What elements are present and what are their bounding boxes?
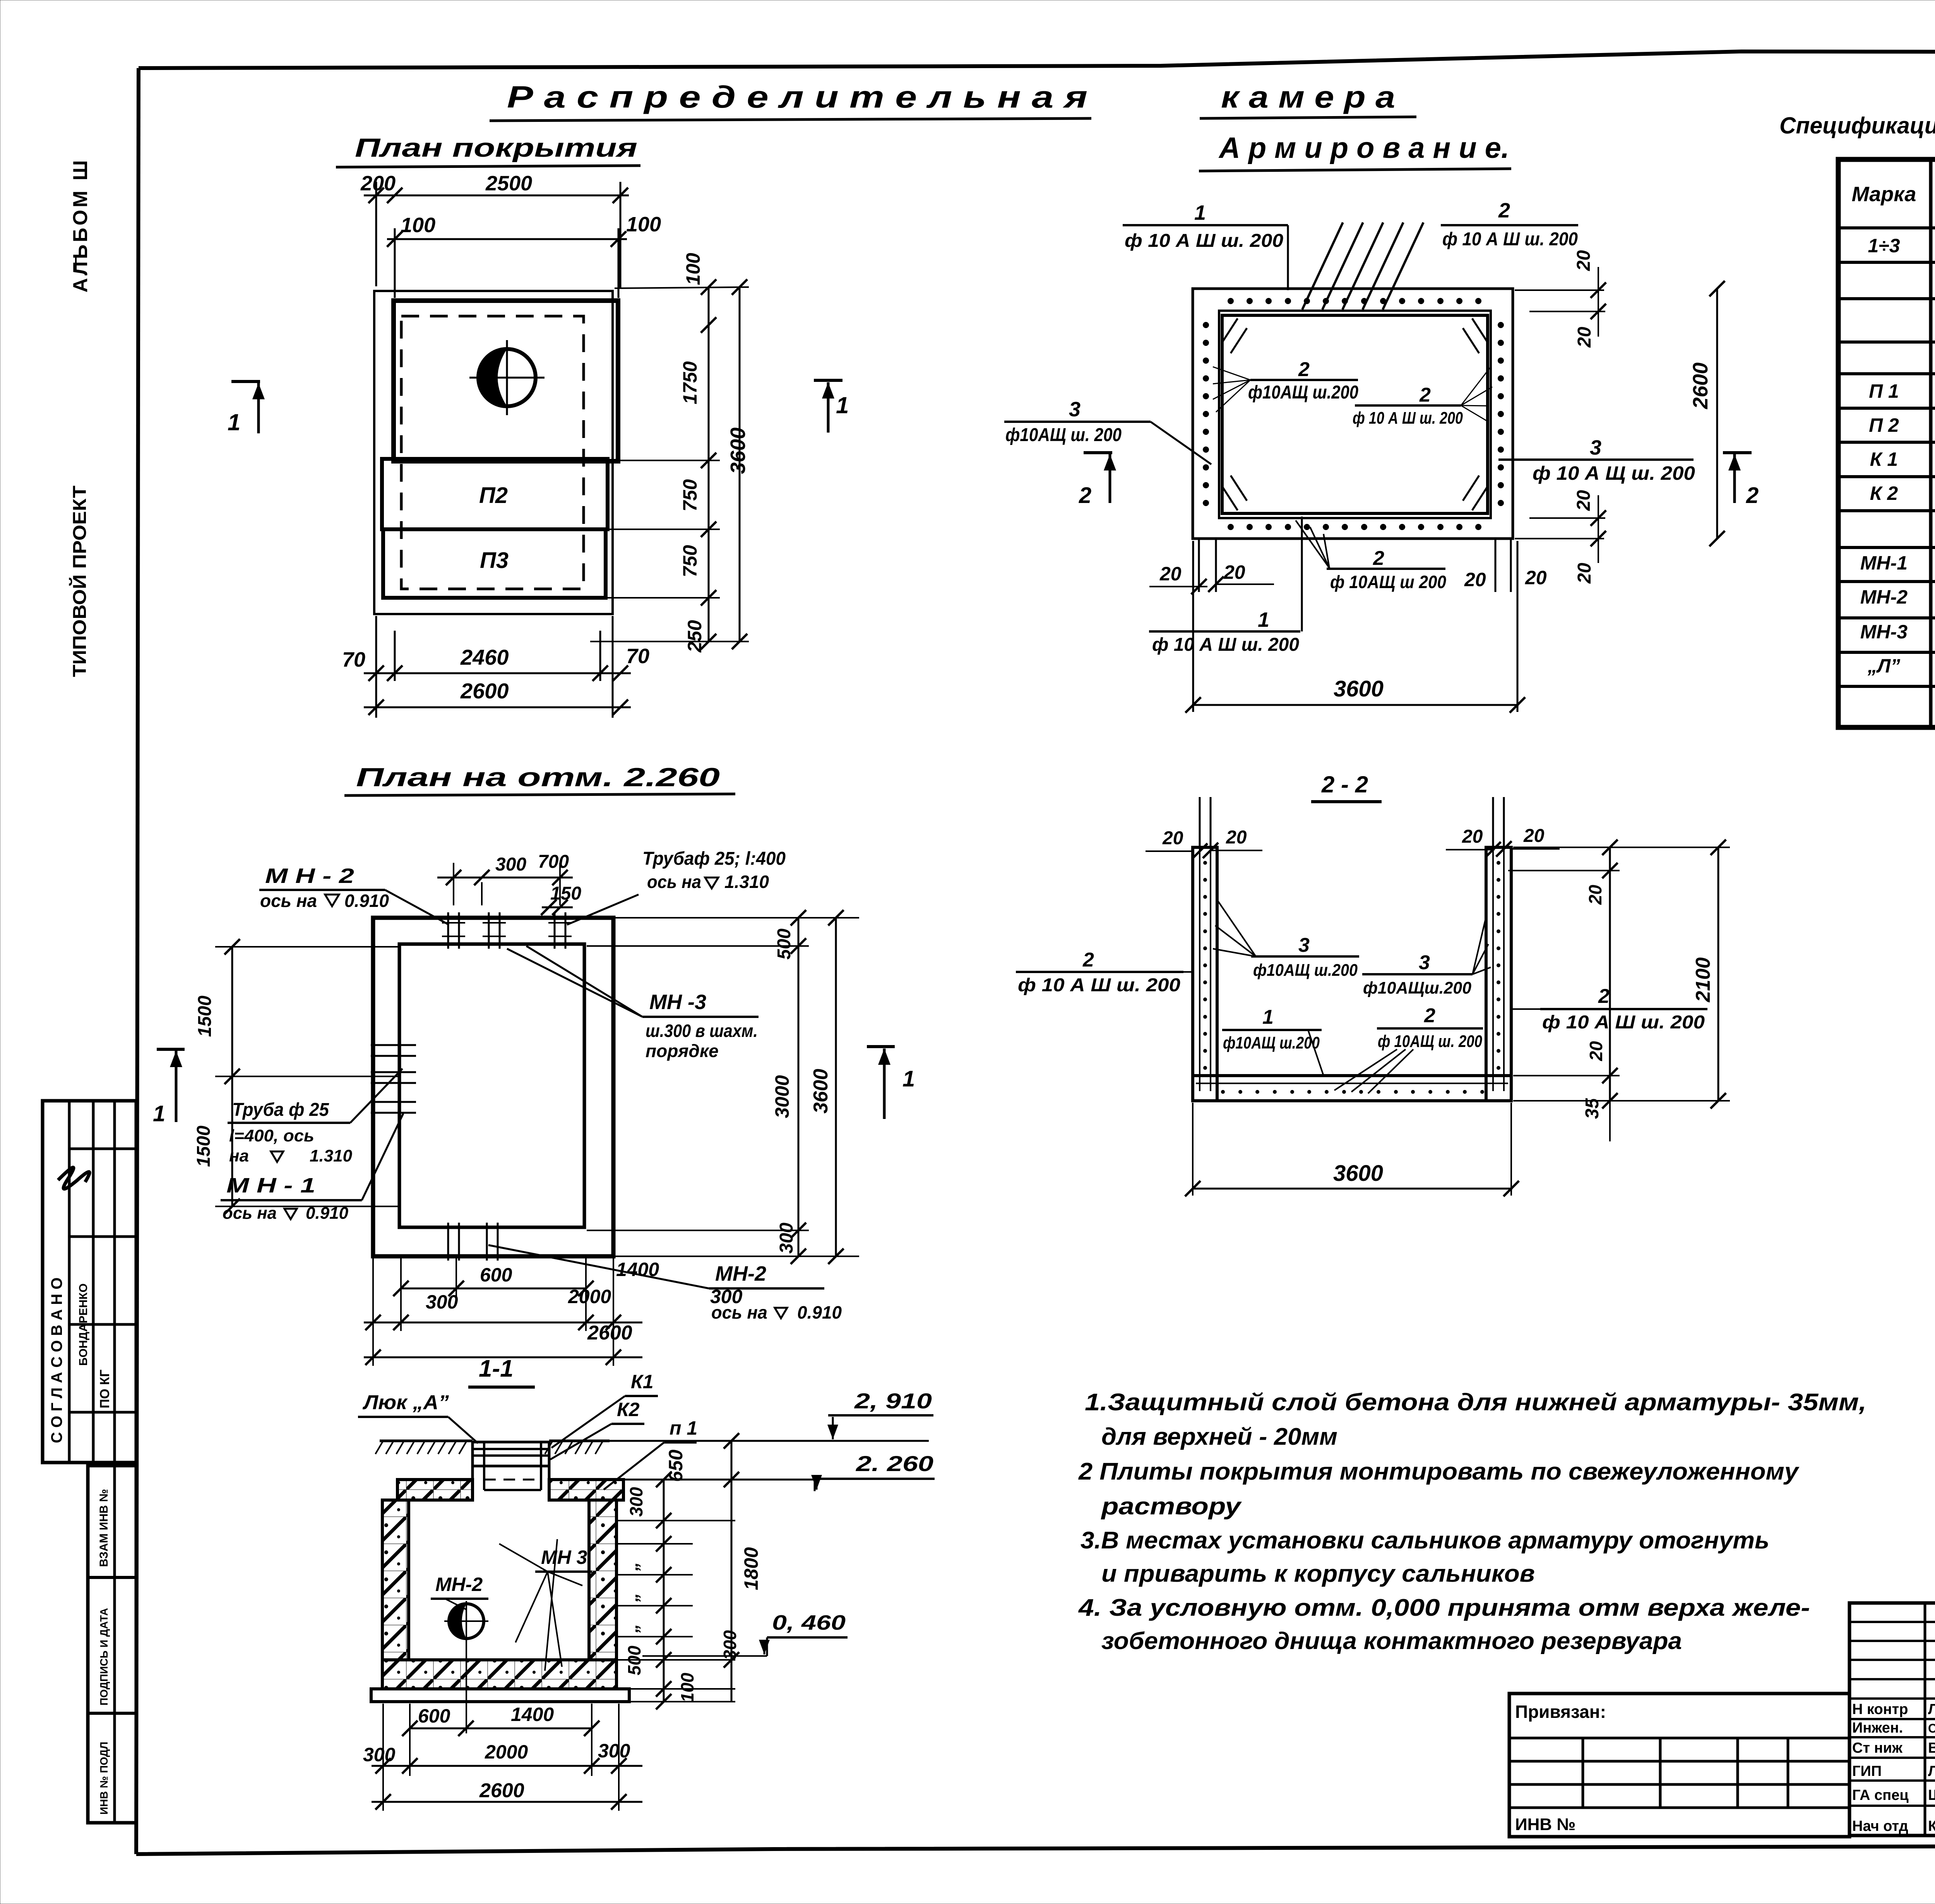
svg-text:3000: 3000	[771, 1075, 793, 1118]
svg-text:ф 10 А Ш ш. 200: ф 10 А Ш ш. 200	[1018, 975, 1180, 996]
svg-text:Нач отд: Нач отд	[1852, 1818, 1908, 1834]
svg-text:П 1: П 1	[1869, 380, 1899, 402]
svg-text:20: 20	[1574, 490, 1594, 511]
svg-text:С О Г Л А С О В А Н О: С О Г Л А С О В А Н О	[48, 1277, 65, 1443]
svg-text:„: „	[622, 1562, 642, 1571]
svg-text:М Н - 1: М Н - 1	[226, 1174, 315, 1197]
svg-text:ф 10 А Ш ш. 200: ф 10 А Ш ш. 200	[1542, 1012, 1705, 1033]
svg-text:ф 10 А Ш ш. 200: ф 10 А Ш ш. 200	[1152, 635, 1299, 655]
svg-text:ТИПОВОЙ ПРОЕКТ: ТИПОВОЙ ПРОЕКТ	[69, 486, 90, 677]
svg-text:70: 70	[626, 645, 649, 668]
svg-text:1.310: 1.310	[310, 1146, 353, 1165]
svg-text:ф10АЩ ш. 200: ф10АЩ ш. 200	[1005, 425, 1122, 445]
svg-text:300: 300	[710, 1286, 743, 1307]
svg-text:МН-1: МН-1	[1860, 552, 1908, 574]
svg-text:ф 10 А Ш ш. 200: ф 10 А Ш ш. 200	[1442, 229, 1578, 250]
svg-text:3: 3	[1069, 398, 1081, 421]
svg-text:МН -3: МН -3	[649, 990, 706, 1014]
svg-text:2000: 2000	[485, 1741, 528, 1763]
svg-text:П3: П3	[480, 548, 509, 573]
svg-text:0.910: 0.910	[797, 1302, 842, 1322]
svg-text:АЛЬБОМ Ш: АЛЬБОМ Ш	[69, 158, 92, 293]
svg-text:20: 20	[1525, 567, 1547, 588]
svg-text:20: 20	[1462, 826, 1483, 847]
svg-text:ПОДПИСЬ И ДАТА: ПОДПИСЬ И ДАТА	[98, 1608, 110, 1706]
svg-text:1800: 1800	[740, 1547, 762, 1590]
svg-text:300: 300	[598, 1740, 630, 1762]
svg-text:ф 10АЩ ш. 200: ф 10АЩ ш. 200	[1378, 1032, 1482, 1051]
svg-text:МН-2: МН-2	[1860, 586, 1908, 608]
svg-text:1: 1	[153, 1101, 165, 1126]
svg-text:2. 260: 2. 260	[856, 1451, 933, 1476]
svg-text:Ст ниж: Ст ниж	[1852, 1740, 1903, 1756]
svg-text:20: 20	[1159, 563, 1182, 585]
svg-text:35: 35	[1582, 1098, 1603, 1119]
svg-text:А р м и р о в а н и е.: А р м и р о в а н и е.	[1218, 132, 1509, 164]
svg-text:300: 300	[626, 1487, 646, 1517]
svg-text:500: 500	[774, 929, 795, 960]
svg-text:100: 100	[682, 253, 704, 285]
svg-text:Спецификация элементов к марки: Спецификация элементов к маркировочной с…	[1779, 113, 1935, 139]
svg-text:Марка: Марка	[1852, 183, 1916, 206]
svg-text:ось на: ось на	[647, 872, 701, 892]
svg-text:20: 20	[1574, 250, 1594, 271]
svg-text:ф 10 А Щ ш. 200: ф 10 А Щ ш. 200	[1533, 462, 1695, 484]
svg-text:750: 750	[679, 545, 701, 577]
svg-text:150: 150	[550, 883, 581, 904]
svg-text:l=400, ось: l=400, ось	[229, 1126, 314, 1145]
svg-text:МН-2: МН-2	[435, 1574, 483, 1595]
svg-text:МН 3: МН 3	[541, 1546, 587, 1568]
svg-text:к а м е р а: к а м е р а	[1221, 80, 1395, 114]
svg-text:20: 20	[1585, 884, 1605, 905]
svg-text:1: 1	[836, 392, 849, 418]
svg-text:3: 3	[1298, 934, 1310, 956]
svg-text:3600: 3600	[1333, 1161, 1383, 1186]
svg-text:ГИП: ГИП	[1852, 1763, 1882, 1779]
svg-text:План на отм. 2.260: План на отм. 2.260	[356, 763, 720, 792]
svg-text:План покрытия: План покрытия	[355, 133, 637, 163]
svg-text:П2: П2	[479, 483, 508, 508]
svg-text:2600: 2600	[460, 679, 509, 703]
svg-text:250: 250	[684, 620, 706, 653]
svg-text:3600: 3600	[1334, 676, 1384, 701]
svg-text:П 2: П 2	[1869, 414, 1899, 436]
svg-text:100: 100	[626, 213, 661, 236]
svg-text:20: 20	[1226, 827, 1247, 848]
svg-text:70: 70	[342, 648, 365, 671]
svg-text:КРАСАВИН: КРАСАВИН	[1928, 1818, 1935, 1834]
svg-text:2: 2	[1082, 949, 1094, 971]
svg-text:Инжен.: Инжен.	[1852, 1720, 1903, 1736]
svg-text:Сложеникина: Сложеникина	[1928, 1721, 1935, 1735]
svg-text:2: 2	[1419, 384, 1431, 406]
svg-text:20: 20	[1586, 1041, 1606, 1061]
svg-text:„: „	[622, 1624, 642, 1633]
svg-text:МН-3: МН-3	[1860, 621, 1908, 643]
svg-text:ф 10АЩ ш 200: ф 10АЩ ш 200	[1330, 572, 1446, 592]
svg-text:1400: 1400	[511, 1704, 554, 1725]
svg-text:3: 3	[1590, 436, 1601, 459]
svg-text:1: 1	[1262, 1006, 1274, 1028]
svg-text:20: 20	[1523, 826, 1545, 846]
svg-text:600: 600	[418, 1705, 450, 1727]
svg-text:1.310: 1.310	[724, 872, 769, 892]
svg-text:ф10АЩ ш.200: ф10АЩ ш.200	[1248, 382, 1358, 403]
svg-text:ИНВ № ПОДЛ: ИНВ № ПОДЛ	[98, 1742, 110, 1815]
svg-text:Привязан:: Привязан:	[1515, 1702, 1606, 1722]
svg-text:300: 300	[720, 1630, 740, 1660]
svg-text:ВЗАМ ИНВ №: ВЗАМ ИНВ №	[98, 1489, 110, 1567]
svg-text:Трубаф 25; l:400: Трубаф 25; l:400	[642, 849, 786, 869]
svg-text:ф 10 А Ш ш. 200: ф 10 А Ш ш. 200	[1353, 409, 1463, 428]
svg-text:2: 2	[1746, 483, 1759, 508]
svg-text:ШАПИРО: ШАПИРО	[1928, 1787, 1935, 1803]
svg-text:1500: 1500	[195, 996, 215, 1037]
svg-text:ЛОУЦКЕР: ЛОУЦКЕР	[1928, 1763, 1935, 1779]
svg-text:600: 600	[480, 1264, 512, 1286]
svg-text:1-1: 1-1	[479, 1355, 514, 1382]
svg-text:20: 20	[1574, 563, 1595, 584]
svg-text:300: 300	[776, 1223, 797, 1254]
svg-text:ф10АЩ ш.200: ф10АЩ ш.200	[1253, 961, 1358, 980]
svg-text:3600: 3600	[726, 428, 750, 474]
svg-text:1÷3: 1÷3	[1868, 235, 1900, 257]
svg-text:М Н - 2: М Н - 2	[265, 864, 354, 888]
svg-text:ф10АЩ ш.200: ф10АЩ ш.200	[1223, 1033, 1320, 1052]
svg-text:2500: 2500	[485, 172, 532, 195]
svg-text:3600: 3600	[810, 1069, 832, 1114]
svg-text:750: 750	[679, 479, 701, 511]
svg-text:1: 1	[902, 1066, 915, 1091]
svg-text:зобетонного днища контактног: зобетонного днища контактного резервуара	[1101, 1628, 1682, 1654]
svg-text:3: 3	[1419, 951, 1430, 974]
svg-text:К2: К2	[617, 1399, 640, 1420]
svg-text:МН-2: МН-2	[715, 1262, 766, 1285]
svg-text:500: 500	[624, 1646, 644, 1675]
svg-text:0.910: 0.910	[344, 891, 389, 911]
svg-text:БОНДАРЕНКО: БОНДАРЕНКО	[77, 1283, 90, 1366]
svg-text:2600: 2600	[479, 1779, 524, 1802]
svg-text:3.В местах установки сальник: 3.В местах установки сальников арматуру …	[1081, 1527, 1769, 1554]
svg-text:100: 100	[401, 214, 435, 237]
svg-text:650: 650	[665, 1449, 687, 1482]
svg-text:300: 300	[363, 1744, 396, 1765]
svg-text:4. За условную отм. 0,000: 4. За условную отм. 0,000 принята отм ве…	[1078, 1594, 1810, 1621]
svg-text:2: 2	[1498, 199, 1510, 222]
svg-text:2000: 2000	[568, 1286, 611, 1307]
svg-text:2: 2	[1373, 547, 1384, 570]
svg-text:2600: 2600	[1689, 363, 1712, 409]
svg-text:1: 1	[1258, 608, 1269, 631]
svg-text:200: 200	[360, 172, 396, 195]
svg-text:20: 20	[1162, 828, 1183, 849]
svg-text:700: 700	[538, 852, 569, 872]
svg-text:„Л”: „Л”	[1867, 655, 1900, 677]
svg-text:Люк „А”: Люк „А”	[362, 1391, 449, 1414]
svg-text:К 2: К 2	[1870, 482, 1898, 504]
svg-text:2600: 2600	[587, 1322, 632, 1344]
svg-text:ось на: ось на	[260, 891, 317, 911]
svg-text:2, 910: 2, 910	[854, 1389, 932, 1413]
svg-text:0, 460: 0, 460	[772, 1611, 846, 1634]
svg-text:1.Защитный слой бетона для ниж: 1.Защитный слой бетона для нижней армату…	[1085, 1389, 1867, 1416]
svg-text:2 Плиты покрытия монтировать: 2 Плиты покрытия монтировать по свежеуло…	[1078, 1458, 1800, 1485]
svg-text:100: 100	[677, 1673, 697, 1702]
svg-text:ВОЛЬФ: ВОЛЬФ	[1928, 1740, 1935, 1756]
svg-text:ф 10 А Ш ш. 200: ф 10 А Ш ш. 200	[1125, 231, 1283, 251]
svg-text:1500: 1500	[193, 1126, 214, 1167]
svg-text:20: 20	[1574, 327, 1595, 348]
svg-text:20: 20	[1464, 569, 1486, 590]
svg-text:1400: 1400	[616, 1259, 659, 1280]
svg-text:2: 2	[1598, 985, 1610, 1008]
svg-text:п 1: п 1	[670, 1417, 697, 1439]
svg-text:1: 1	[228, 409, 240, 435]
svg-text:Н контр: Н контр	[1852, 1701, 1908, 1718]
svg-text:2: 2	[1424, 1004, 1435, 1027]
svg-text:1750: 1750	[679, 361, 701, 404]
svg-text:1: 1	[1194, 201, 1206, 224]
svg-text:К1: К1	[631, 1371, 654, 1393]
svg-text:и приварить к корпусу сальни: и приварить к корпусу сальников	[1101, 1560, 1535, 1587]
svg-text:2 - 2: 2 - 2	[1321, 772, 1368, 797]
svg-text:Труба ф 25: Труба ф 25	[232, 1100, 329, 1120]
svg-text:для верхней - 20мм: для верхней - 20мм	[1101, 1423, 1337, 1450]
svg-text:20: 20	[1223, 561, 1245, 583]
svg-text:порядке: порядке	[646, 1041, 719, 1061]
svg-text:300: 300	[426, 1291, 458, 1313]
svg-text:Р а с п р е д е л и т е л ь н: Р а с п р е д е л и т е л ь н а я	[507, 80, 1087, 114]
svg-text:ш.300 в шахм.: ш.300 в шахм.	[646, 1021, 758, 1041]
svg-text:2460: 2460	[460, 645, 509, 669]
svg-text:ГА спец: ГА спец	[1852, 1787, 1909, 1803]
svg-text:К 1: К 1	[1870, 448, 1898, 470]
svg-text:2100: 2100	[1692, 957, 1714, 1002]
svg-text:ИНВ №: ИНВ №	[1515, 1815, 1575, 1834]
svg-text:2: 2	[1298, 358, 1310, 381]
svg-text:300: 300	[495, 854, 526, 875]
svg-text:ПО КГ: ПО КГ	[98, 1370, 112, 1408]
svg-text:„: „	[622, 1593, 642, 1602]
svg-text:ф10АЩш.200: ф10АЩш.200	[1363, 979, 1472, 997]
svg-text:2: 2	[1079, 483, 1091, 508]
svg-text:раствору: раствору	[1101, 1493, 1242, 1520]
svg-text:ЛОУЦКЕР: ЛОУЦКЕР	[1928, 1701, 1935, 1718]
